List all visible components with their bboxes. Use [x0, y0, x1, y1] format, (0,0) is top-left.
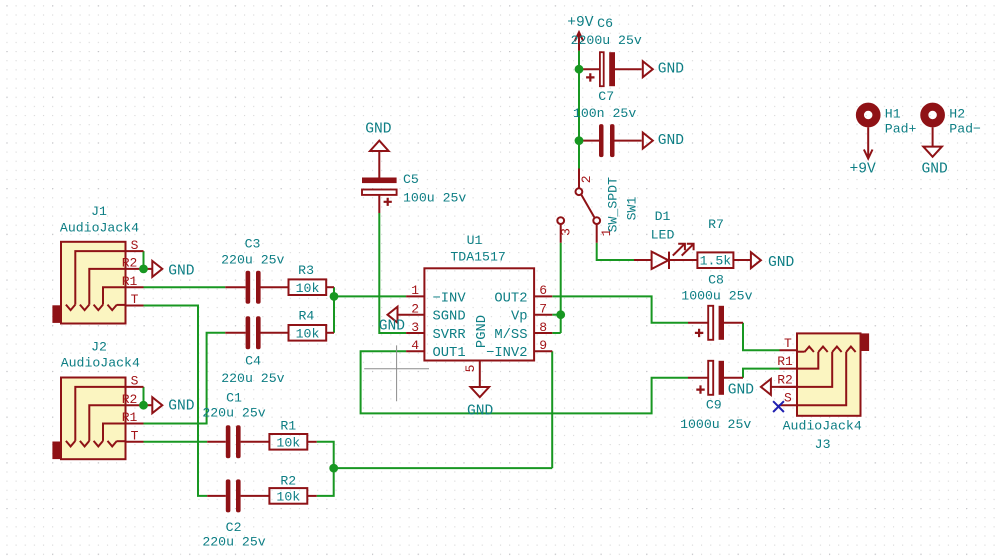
- svg-text:1000u 25v: 1000u 25v: [681, 289, 752, 304]
- J3 body: [797, 333, 861, 415]
- svg-text:GND: GND: [168, 263, 195, 279]
- svg-text:J2: J2: [91, 340, 107, 355]
- svg-text:3: 3: [559, 228, 574, 236]
- J1 contact chevrons: [66, 305, 117, 311]
- svg-text:S: S: [131, 374, 139, 389]
- svg-text:LED: LED: [651, 228, 675, 243]
- svg-text:GND: GND: [467, 404, 494, 420]
- pin 8 M/SS: [534, 332, 552, 334]
- svg-text:C4: C4: [245, 354, 261, 369]
- svg-text:1000u 25v: 1000u 25v: [680, 417, 751, 432]
- svg-text:SW1: SW1: [624, 197, 639, 221]
- diode D1 LED: [634, 209, 697, 269]
- svg-text:S: S: [131, 238, 139, 253]
- svg-text:5: 5: [463, 365, 478, 373]
- svg-text:AudioJack4: AudioJack4: [60, 221, 139, 236]
- svg-text:1: 1: [411, 283, 419, 298]
- pin 1 -INV: [406, 295, 424, 297]
- svg-text:4: 4: [411, 338, 419, 353]
- wire R3/R4 node to -INV (pin1): [334, 295, 406, 297]
- ground GND at C6: [643, 61, 684, 77]
- resistor R7: [697, 217, 751, 269]
- mounting hole H2: [922, 107, 981, 178]
- pin 4 OUT1: [406, 350, 424, 352]
- junction R1/R2 feedback node: [329, 464, 338, 473]
- wire J2 T to C1: [144, 441, 208, 443]
- ground GND at J1 R2: [144, 261, 195, 279]
- svg-text:R2: R2: [122, 392, 138, 407]
- junction R3/R4 to pin1: [330, 292, 339, 301]
- svg-text:R4: R4: [298, 308, 314, 323]
- capacitor C1 (220u): [202, 391, 269, 459]
- svg-text:U1: U1: [467, 233, 483, 248]
- svg-text:R1: R1: [122, 410, 138, 425]
- capacitor C6 (2200u polarized): [571, 16, 642, 86]
- svg-text:PGND: PGND: [475, 315, 490, 348]
- svg-text:OUT2: OUT2: [494, 291, 527, 306]
- svg-text:9: 9: [539, 338, 547, 353]
- junction at J1 R2/GND: [139, 265, 148, 274]
- wire M/SS to column: [552, 332, 560, 334]
- wire C8 to J3 T: [743, 323, 780, 351]
- junction Vp column: [556, 310, 565, 319]
- svg-text:220u 25v: 220u 25v: [202, 535, 265, 550]
- pin 2 SGND: [398, 314, 425, 316]
- svg-text:SW_SPDT: SW_SPDT: [606, 177, 621, 232]
- capacitor C8 (1000u polarized): [681, 273, 752, 340]
- J3 contact lines: [797, 352, 846, 405]
- svg-text:C2: C2: [226, 520, 242, 535]
- svg-text:6: 6: [539, 283, 547, 298]
- wire -INV2 (pin9) down to feedback node: [551, 351, 553, 468]
- svg-text:C5: C5: [403, 172, 419, 187]
- svg-text:H2: H2: [949, 107, 965, 122]
- svg-text:10k: 10k: [296, 281, 320, 296]
- wire C9 to J3 R1: [743, 369, 780, 378]
- svg-text:GND: GND: [658, 133, 685, 149]
- J2 contact lines: [75, 387, 125, 441]
- power symbol +9V (top): [567, 15, 594, 51]
- svg-text:R2: R2: [122, 256, 138, 271]
- svg-text:10k: 10k: [276, 436, 300, 451]
- svg-text:220u 25v: 220u 25v: [221, 253, 284, 268]
- J1 pin stubs S R2 R1 T: [126, 251, 144, 305]
- J2 body: [61, 378, 126, 460]
- svg-text:GND: GND: [658, 62, 685, 78]
- wire J1 R1 to C3: [144, 286, 226, 288]
- svg-text:C1: C1: [226, 391, 242, 406]
- wire R3-R4 right link: [333, 287, 335, 333]
- svg-text:T: T: [784, 336, 792, 351]
- wire OUT2 (pin6) to C8: [552, 296, 688, 322]
- svg-text:AudioJack4: AudioJack4: [783, 419, 862, 434]
- svg-text:GND: GND: [768, 255, 795, 271]
- svg-text:Vp: Vp: [511, 310, 528, 325]
- capacitor C3 (220u): [221, 237, 288, 304]
- svg-text:C8: C8: [708, 273, 724, 288]
- capacitor C4 (220u): [221, 316, 288, 386]
- wire node Vp to column: [552, 314, 560, 316]
- switch SW1 SW_SPDT: [557, 169, 639, 243]
- wire C5 down to SVRR (pin3): [379, 213, 406, 333]
- ground GND at U1 pin 5: [467, 387, 494, 420]
- resistor R3: [289, 263, 335, 296]
- junction +9V rail at C7: [575, 136, 584, 145]
- svg-text:TDA1517: TDA1517: [450, 249, 505, 264]
- svg-text:GND: GND: [379, 319, 406, 335]
- svg-text:Pad+: Pad+: [885, 122, 917, 137]
- svg-text:220u 25v: 220u 25v: [221, 371, 284, 386]
- no-connect X at J3 S: [773, 401, 784, 412]
- svg-text:T: T: [131, 429, 139, 444]
- svg-text:C9: C9: [706, 398, 722, 413]
- svg-text:M/SS: M/SS: [494, 327, 527, 343]
- svg-text:220u 25v: 220u 25v: [202, 406, 265, 421]
- svg-text:R3: R3: [298, 263, 314, 278]
- svg-text:R7: R7: [708, 217, 724, 232]
- ground GND at C7: [643, 133, 684, 150]
- svg-text:+9V: +9V: [850, 161, 877, 177]
- junction +9V rail at C6: [575, 65, 584, 74]
- svg-text:R2: R2: [280, 474, 296, 489]
- ground GND at R7: [751, 252, 795, 271]
- pin 9 -INV2: [534, 350, 552, 352]
- J2 sleeve tab: [52, 442, 61, 460]
- svg-text:−INV: −INV: [433, 291, 467, 306]
- wire OUT1 (pin4) loop to C9: [361, 351, 688, 413]
- svg-text:H1: H1: [885, 107, 901, 122]
- crosshair (sheet cursor): [364, 345, 429, 401]
- svg-text:−INV2: −INV2: [486, 346, 527, 361]
- wire R1-R2 right link: [317, 442, 334, 496]
- connector J1 AudioJack4: [52, 204, 143, 324]
- svg-text:R1: R1: [777, 354, 793, 369]
- junction at J2 R2/GND: [139, 401, 148, 410]
- svg-text:D1: D1: [655, 209, 671, 224]
- wire J2 S to R2: [143, 387, 145, 405]
- capacitor C5 (100u polarized, vertical): [362, 151, 466, 213]
- svg-text:1.5k: 1.5k: [700, 254, 732, 269]
- wire J1 S to R2: [143, 251, 145, 269]
- svg-text:R1: R1: [122, 274, 138, 289]
- ground GND above C5: [365, 122, 392, 151]
- ground GND at J3 R2: [728, 379, 797, 399]
- wire J1 T down to C2: [144, 306, 208, 496]
- svg-text:S: S: [784, 391, 792, 406]
- resistor R2: [269, 474, 316, 505]
- wire J2 R1 up to C4: [144, 333, 226, 424]
- IC U1 TDA1517: [398, 233, 553, 387]
- svg-text:2: 2: [579, 175, 594, 183]
- svg-text:R2: R2: [777, 372, 793, 387]
- svg-text:OUT1: OUT1: [433, 346, 466, 361]
- svg-text:J1: J1: [91, 204, 107, 219]
- resistor R1: [269, 419, 316, 451]
- wire feedback node to pin9 column: [334, 467, 553, 469]
- svg-text:+9V: +9V: [567, 15, 594, 31]
- svg-text:100n 25v: 100n 25v: [573, 106, 636, 121]
- svg-text:10k: 10k: [276, 490, 300, 505]
- J1 body: [61, 242, 126, 324]
- svg-text:2: 2: [411, 302, 419, 317]
- connector J2 AudioJack4: [52, 340, 143, 460]
- svg-text:R1: R1: [280, 419, 296, 434]
- svg-text:SVRR: SVRR: [433, 328, 466, 343]
- svg-text:8: 8: [539, 320, 547, 335]
- pin 7 Vp: [534, 314, 552, 316]
- svg-text:C7: C7: [598, 89, 614, 104]
- capacitor C9 (1000u polarized): [680, 361, 751, 432]
- wire SW1 pin3 down to Vp/M-SS column: [560, 243, 562, 333]
- J1 sleeve tab: [52, 305, 61, 323]
- capacitor C7 (100n): [573, 89, 642, 157]
- svg-text:10k: 10k: [296, 327, 320, 342]
- svg-text:Pad−: Pad−: [949, 122, 981, 137]
- svg-text:3: 3: [411, 320, 419, 335]
- svg-text:J3: J3: [815, 437, 831, 452]
- ground GND at U1 pin 2: [379, 307, 406, 335]
- svg-text:GND: GND: [922, 161, 949, 177]
- svg-text:GND: GND: [365, 122, 392, 138]
- svg-text:GND: GND: [168, 399, 195, 415]
- J1 contact lines: [75, 251, 125, 305]
- wire +9V rail from +9V symbol down to SW1 pin 2: [578, 51, 580, 169]
- pin 5 PGND: [479, 361, 481, 388]
- svg-text:100u 25v: 100u 25v: [403, 191, 466, 206]
- svg-text:GND: GND: [728, 382, 755, 398]
- resistor R4: [289, 308, 335, 341]
- ground GND at J2 R2: [144, 397, 195, 414]
- svg-text:2200u 25v: 2200u 25v: [571, 33, 642, 48]
- pin 3 SVRR: [406, 332, 424, 334]
- wire SW1 pin1 to LED D1 anode: [597, 243, 634, 260]
- mounting hole H1: [850, 107, 917, 178]
- svg-text:SGND: SGND: [433, 310, 466, 325]
- connector J3 AudioJack4 (mirrored): [777, 333, 869, 452]
- svg-text:7: 7: [539, 302, 547, 317]
- svg-text:C3: C3: [245, 237, 261, 252]
- J3 sleeve tab: [861, 333, 870, 351]
- capacitor C2 (220u): [202, 479, 269, 549]
- svg-text:T: T: [131, 292, 139, 307]
- svg-text:C6: C6: [597, 16, 613, 31]
- svg-text:AudioJack4: AudioJack4: [61, 356, 140, 371]
- pin 6 OUT2: [534, 295, 552, 297]
